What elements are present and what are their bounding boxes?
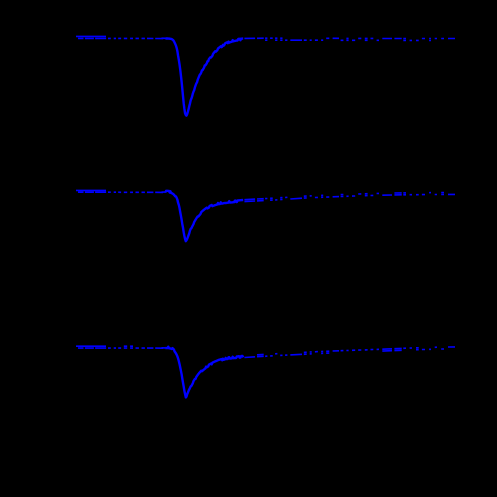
middle trace dip transient bbox=[166, 191, 244, 241]
top trace dip transient bbox=[166, 38, 244, 115]
bottom trace data-point dashes bbox=[76, 346, 455, 357]
middle trace data-point dashes bbox=[76, 190, 455, 201]
top trace data-point dashes bbox=[76, 36, 455, 40]
bottom trace dip transient bbox=[166, 347, 244, 398]
